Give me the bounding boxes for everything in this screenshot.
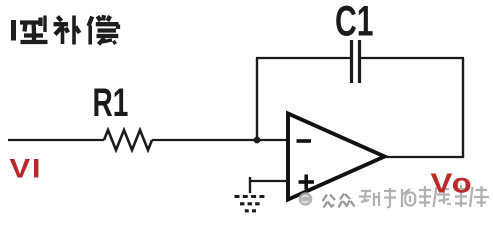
capacitor C1 (352, 40, 360, 83)
svg-text:Vo: Vo (431, 168, 474, 199)
op-amp minus sign (297, 139, 312, 143)
svg-text:C1: C1 (335, 0, 373, 45)
resistor R1 (104, 130, 152, 150)
title I型补偿 (14, 15, 119, 44)
char I (11, 20, 16, 41)
wire: junction to op-amp inverting input (257, 139, 288, 141)
char 型 (20, 16, 48, 43)
op-amp U1 (288, 114, 385, 200)
char 偿 (89, 15, 119, 44)
watermark faded characters 知乎@...硬件 (359, 185, 489, 207)
wire: feedback top right segment (361, 57, 464, 59)
wire: feedback left vertical (256, 58, 258, 140)
watermark logo circle (299, 192, 313, 206)
svg-text:VI: VI (10, 154, 43, 184)
node junction at inverting input (254, 137, 261, 144)
op-amp plus sign (299, 175, 315, 190)
wire: feedback right vertical (462, 58, 464, 158)
ground symbol (dashed bars) (235, 197, 265, 211)
watermark 公众 (323, 194, 355, 208)
wire: op-amp output to Vo node (383, 156, 464, 158)
char 补 (54, 16, 80, 45)
wire: input from VI (8, 139, 104, 141)
wire: resistor to junction (152, 139, 257, 141)
wire: non-inverting input to ground (250, 180, 288, 182)
ground stub (249, 177, 251, 193)
svg-text:R1: R1 (93, 81, 129, 125)
wire: feedback top left segment (256, 57, 350, 59)
